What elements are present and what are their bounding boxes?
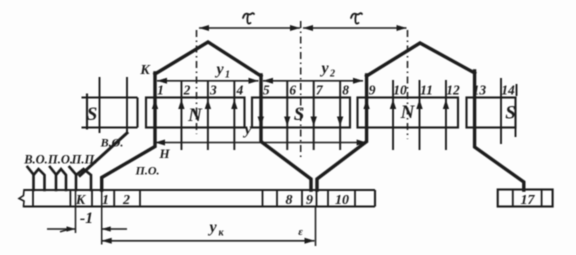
svg-text:9: 9 bbox=[306, 193, 313, 208]
svg-text:8: 8 bbox=[286, 193, 293, 208]
svg-text:9: 9 bbox=[369, 83, 376, 98]
svg-text:5: 5 bbox=[263, 83, 270, 98]
svg-text:3: 3 bbox=[209, 83, 217, 98]
svg-text:8: 8 bbox=[342, 83, 349, 98]
svg-text:6: 6 bbox=[289, 83, 296, 98]
svg-text:2: 2 bbox=[122, 193, 130, 208]
svg-text:N: N bbox=[400, 102, 416, 123]
svg-text:y: y bbox=[207, 219, 217, 236]
svg-text:y: y bbox=[242, 121, 252, 138]
svg-text:S: S bbox=[505, 103, 516, 124]
svg-text:N: N bbox=[187, 105, 203, 126]
svg-text:10: 10 bbox=[335, 193, 349, 208]
svg-text:K: K bbox=[75, 193, 87, 208]
svg-text:17: 17 bbox=[521, 193, 536, 208]
svg-text:1: 1 bbox=[157, 83, 164, 98]
svg-text:В.О.: В.О. bbox=[23, 153, 48, 167]
svg-text:y: y bbox=[319, 60, 329, 77]
svg-text:В.О.: В.О. bbox=[100, 136, 124, 150]
svg-text:y: y bbox=[214, 61, 224, 78]
svg-text:12: 12 bbox=[446, 83, 460, 98]
svg-text:S: S bbox=[294, 104, 305, 125]
svg-text:2: 2 bbox=[183, 83, 191, 98]
svg-text:S: S bbox=[87, 104, 98, 125]
svg-text:-1: -1 bbox=[80, 210, 93, 227]
svg-text:4: 4 bbox=[235, 83, 243, 98]
svg-text:H: H bbox=[158, 146, 170, 161]
svg-text:1: 1 bbox=[225, 70, 230, 81]
svg-text:ε: ε bbox=[298, 226, 303, 238]
svg-text:11: 11 bbox=[420, 83, 433, 98]
svg-text:П.П.: П.П. bbox=[71, 153, 98, 167]
svg-text:2: 2 bbox=[329, 69, 335, 80]
svg-text:14: 14 bbox=[501, 83, 515, 98]
svg-text:П.О.: П.О. bbox=[47, 153, 73, 167]
svg-text:П.О.: П.О. bbox=[135, 164, 160, 178]
svg-text:10: 10 bbox=[393, 83, 407, 98]
svg-text:K: K bbox=[139, 63, 151, 78]
svg-text:1: 1 bbox=[102, 193, 109, 208]
